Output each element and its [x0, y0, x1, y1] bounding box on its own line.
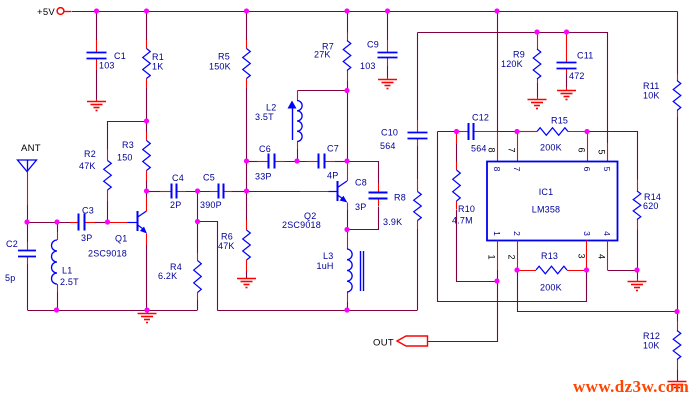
svg-text:LM358: LM358 [532, 205, 561, 215]
svg-text:472: 472 [569, 71, 585, 81]
junction pin4/R14 ground node [634, 267, 639, 272]
svg-text:C3: C3 [82, 206, 94, 216]
label R1 [152, 52, 164, 72]
svg-text:R5: R5 [218, 52, 230, 62]
svg-text:8: 8 [487, 147, 497, 152]
resistor R6 [243, 230, 251, 260]
label C10 [380, 128, 398, 152]
svg-text:ANT: ANT [21, 143, 41, 154]
svg-text:4: 4 [597, 254, 607, 259]
svg-text:C5: C5 [203, 173, 215, 183]
op-amp U IC1 [487, 162, 618, 241]
svg-text:200K: 200K [540, 283, 562, 293]
svg-text:R11: R11 [643, 81, 659, 91]
label C2 [5, 239, 18, 283]
pin number 2 [507, 254, 517, 259]
arrow L2 tuning [288, 101, 297, 141]
label R4 [158, 262, 182, 281]
label R2 [79, 149, 96, 171]
wire +5V top rail [72, 11, 678, 13]
svg-text:5: 5 [597, 149, 607, 154]
wire pin4 [608, 241, 638, 271]
label R12 [643, 331, 660, 351]
svg-text:OUT: OUT [373, 338, 394, 349]
svg-text:3: 3 [577, 253, 587, 258]
svg-text:2SC9018: 2SC9018 [282, 220, 321, 230]
junction +5V/R1 [144, 8, 149, 13]
svg-text:R15: R15 [551, 116, 568, 126]
pin name 3 [582, 231, 592, 236]
label C4 [170, 173, 184, 210]
wire C8 branch [348, 162, 379, 230]
wire pin6 stub [587, 132, 589, 162]
svg-text:7: 7 [512, 167, 522, 172]
wire R15 leads [517, 131, 587, 133]
junction L1 top [54, 219, 59, 224]
wire C1 branch [96, 11, 98, 101]
wire C10 R8 column [417, 33, 419, 311]
svg-text:R3: R3 [122, 140, 134, 150]
capacitor C1 [87, 53, 107, 59]
svg-text:103: 103 [360, 61, 376, 71]
svg-text:4: 4 [602, 231, 612, 236]
pin number 1 [487, 254, 497, 259]
svg-text:103: 103 [99, 61, 115, 71]
junction R5/C6 node [244, 158, 249, 163]
wire C2 leads [27, 222, 29, 310]
svg-text:10K: 10K [643, 91, 660, 101]
svg-text:C10: C10 [381, 128, 398, 138]
svg-text:L1: L1 [62, 266, 72, 276]
svg-text:2.5T: 2.5T [60, 277, 79, 287]
power port +5V [37, 7, 71, 18]
svg-text:5: 5 [602, 167, 612, 172]
pin number 5 [597, 149, 607, 154]
svg-text:C9: C9 [367, 40, 379, 50]
label C7 [327, 144, 339, 181]
svg-text:R1: R1 [152, 52, 164, 62]
junction L3 bottom [344, 307, 349, 312]
svg-text:L3: L3 [323, 251, 333, 261]
label R14 [643, 192, 661, 211]
wire pin8 column [497, 11, 499, 162]
pin name 2 [512, 231, 522, 236]
svg-text:4P: 4P [327, 171, 338, 181]
junction C11 top [564, 29, 569, 34]
wire Q2 base [247, 191, 338, 193]
wire L1 leads [57, 222, 59, 310]
wire bottom rail right [218, 310, 418, 312]
ground rail gnd symbol [138, 310, 157, 323]
svg-text:150K: 150K [209, 62, 231, 72]
svg-text:R8: R8 [394, 193, 406, 203]
pin number 3 [577, 253, 587, 258]
capacitor C6 [269, 154, 275, 169]
svg-text:IC1: IC1 [539, 187, 554, 197]
svg-text:10K: 10K [643, 341, 660, 351]
svg-text:R10: R10 [458, 204, 475, 214]
watermark www.dz3w.com [573, 377, 689, 395]
resistor R1 [143, 49, 151, 79]
capacitor C9 [378, 53, 398, 58]
wire R12 leads [677, 312, 679, 382]
wire ground rail left [28, 310, 198, 312]
svg-text:Q1: Q1 [115, 234, 127, 244]
label C9 [360, 40, 379, 72]
ground C9 [378, 80, 397, 89]
svg-text:6: 6 [582, 167, 592, 172]
resistor R5 [243, 49, 251, 79]
junction pin2/R13 node [514, 267, 519, 272]
capacitor C4 [172, 184, 177, 199]
junction C4/C5 node [195, 188, 200, 193]
junction pin6/R15/R14 node [584, 129, 589, 134]
ground R6 [237, 279, 256, 288]
svg-text:1uH: 1uH [317, 261, 334, 271]
svg-text:C1: C1 [114, 51, 126, 61]
wire R13 leads [517, 270, 587, 272]
svg-text:L2: L2 [266, 103, 276, 113]
junction R1/R2/R3 node [144, 118, 149, 123]
resistor R2 [104, 161, 112, 191]
inductor L2 [297, 101, 302, 142]
label R11 [643, 81, 660, 101]
ground pin4 [628, 270, 647, 291]
svg-text:47K: 47K [218, 241, 235, 251]
svg-text:1K: 1K [152, 62, 163, 72]
svg-text:C7: C7 [327, 144, 339, 154]
wire R2 stub [108, 122, 147, 221]
resistor R8 [414, 192, 422, 221]
wire R3 leads [146, 121, 148, 191]
pin number 4 [597, 254, 607, 259]
wire C12 row [438, 131, 518, 133]
wire C11 leads [566, 32, 568, 90]
transistor Q2 [338, 161, 348, 230]
capacitor C12 [469, 123, 474, 140]
junction +5V/C9 [385, 8, 390, 13]
svg-text:564: 564 [380, 141, 396, 151]
wire R15 to R14 [588, 132, 638, 271]
label Q1 [88, 234, 127, 259]
capacitor C7 [319, 154, 325, 169]
svg-text:5p: 5p [5, 273, 15, 283]
svg-text:200K: 200K [540, 143, 562, 153]
label R7 [314, 42, 334, 60]
wire emitter rail jog [198, 222, 218, 311]
svg-text:2P: 2P [170, 200, 181, 210]
svg-text:+5V: +5V [37, 7, 55, 18]
wire pin3 feedback [438, 132, 587, 302]
svg-text:C6: C6 [259, 144, 271, 154]
label R9 [501, 50, 525, 70]
ground C11 [557, 91, 576, 100]
junction L1 bottom [54, 307, 59, 312]
junction pin1/R10/OUT node [494, 278, 499, 283]
pin number 7 [507, 147, 517, 152]
svg-text:620: 620 [643, 201, 659, 211]
antenna ANT [18, 143, 41, 220]
junction +5V/R5 [244, 8, 249, 13]
capacitor C3 [79, 214, 85, 231]
junction R11/R12 node [674, 309, 679, 314]
junction ANT/C2 node [24, 219, 29, 224]
wire feedback top [418, 33, 608, 162]
label L1 [60, 266, 79, 288]
pin name 7 [512, 167, 522, 172]
wire R5 leads [246, 11, 248, 191]
label R13 [540, 251, 562, 293]
junction Q1 emitter ground [144, 307, 149, 312]
ground R9 [528, 100, 547, 109]
svg-text:C8: C8 [355, 178, 367, 188]
wire pin1 [497, 241, 499, 282]
resistor R10 [453, 170, 461, 201]
label C11 [569, 51, 593, 82]
svg-text:47K: 47K [79, 161, 96, 171]
wire R10 leads [457, 132, 498, 282]
capacitor C2 [18, 251, 36, 257]
label R15 [540, 116, 568, 153]
junction R9 top [534, 29, 539, 34]
wire L3 leads [347, 230, 349, 311]
label IC1 [532, 187, 561, 215]
pin number 8 [487, 147, 497, 152]
svg-text:3: 3 [582, 231, 592, 236]
svg-text:3.5T: 3.5T [255, 112, 274, 122]
wire C4 row [147, 191, 247, 193]
pin name 4 [602, 231, 612, 236]
svg-text:3P: 3P [81, 233, 92, 243]
svg-text:3.9K: 3.9K [383, 217, 402, 227]
ground C1 [87, 102, 106, 111]
label L2 [255, 103, 276, 123]
inductor L3 [347, 249, 364, 292]
svg-text:R13: R13 [541, 251, 558, 261]
svg-text:8: 8 [492, 167, 502, 172]
inductor L1 [52, 240, 57, 284]
label R6 [218, 232, 235, 252]
label R3 [117, 140, 134, 163]
wire OUT net [428, 282, 498, 342]
svg-text:C12: C12 [472, 113, 489, 123]
wire R11 column [677, 12, 679, 312]
junction R4 top node [195, 219, 200, 224]
label C6 [255, 144, 272, 182]
junction C12/R10 node [454, 129, 459, 134]
capacitor C8 [369, 193, 388, 199]
wire R4 branch [197, 192, 199, 311]
svg-text:3P: 3P [355, 202, 366, 212]
svg-text:4.7M: 4.7M [452, 216, 473, 226]
wire R1 leads [146, 11, 148, 121]
junction Q2 emitter/C8/L3 node [344, 227, 349, 232]
wire R7 leads [347, 11, 349, 161]
wire input row [28, 222, 79, 224]
wire C6 row [247, 161, 348, 163]
svg-text:7: 7 [507, 147, 517, 152]
resistor R13 [536, 266, 567, 274]
junction pin7/R15/C12 node [514, 129, 519, 134]
wire pin7 stub [517, 132, 519, 162]
resistor R4 [194, 261, 202, 293]
junction C6/L2/C7 tank node [294, 158, 299, 163]
label R10 [452, 204, 475, 226]
label C3 [81, 206, 94, 244]
junction C5/R6/Q2 base node [244, 188, 249, 193]
pin name 5 [602, 167, 612, 172]
svg-text:120K: 120K [501, 59, 523, 69]
capacitor C5 [219, 184, 224, 199]
transistor Q1 [137, 191, 147, 310]
label R5 [209, 52, 231, 72]
svg-text:6.2K: 6.2K [158, 271, 177, 281]
resistor R9 [533, 49, 541, 79]
resistor R14 [633, 191, 641, 220]
svg-text:C2: C2 [6, 239, 18, 249]
pin name 6 [582, 167, 592, 172]
junction R2/C3/Q1 base node [105, 219, 110, 224]
svg-text:R2: R2 [84, 149, 96, 159]
label C1 [99, 51, 126, 71]
svg-text:R6: R6 [221, 232, 233, 242]
svg-text:6: 6 [577, 147, 587, 152]
svg-text:1: 1 [487, 254, 497, 259]
svg-text:R9: R9 [513, 50, 525, 60]
junction R3/C4/Q1 collector node [144, 188, 149, 193]
wire C9 leads [387, 11, 389, 80]
svg-text:2: 2 [512, 231, 522, 236]
capacitor C11 [557, 63, 577, 69]
label Q2 [282, 211, 321, 230]
resistor R12 [673, 331, 681, 360]
ground R12 [668, 382, 687, 391]
svg-text:2SC9018: 2SC9018 [88, 249, 127, 259]
svg-text:27K: 27K [314, 50, 331, 60]
svg-text:33P: 33P [255, 172, 272, 182]
label R8 [383, 193, 406, 228]
label L3 [317, 251, 334, 271]
label C8 [355, 178, 367, 213]
wire C3 to Q1 base [84, 222, 137, 224]
junction R7/L2 node [344, 88, 349, 93]
junction +5V/C1 [94, 8, 99, 13]
wire L2 top [298, 91, 348, 101]
pin name 8 [492, 167, 502, 172]
pin number 6 [577, 147, 587, 152]
label C12 [471, 113, 489, 154]
resistor R3 [143, 141, 151, 171]
wire pin3 [586, 241, 588, 271]
wire R6 leads [246, 191, 248, 279]
wire pin2 to R12 [518, 271, 678, 312]
svg-text:R12: R12 [643, 331, 660, 341]
svg-text:www.dz3w.com: www.dz3w.com [573, 377, 689, 395]
junction +5V/R7 [344, 8, 349, 13]
resistor R11 [673, 81, 681, 111]
label C5 [200, 173, 222, 211]
wire L2 bottom [297, 142, 299, 162]
junction +5V/pin8 [494, 8, 499, 13]
resistor R7 [343, 41, 351, 71]
svg-text:C11: C11 [577, 51, 593, 61]
svg-text:390P: 390P [200, 200, 222, 210]
capacitor C10 [408, 133, 428, 139]
svg-text:564: 564 [471, 144, 487, 154]
junction pin3/R13 node [584, 267, 589, 272]
svg-text:1: 1 [492, 231, 502, 236]
wire R9 leads [537, 32, 539, 100]
svg-text:2: 2 [507, 254, 517, 259]
junction C7/Q2 collector node [344, 158, 349, 163]
svg-text:150: 150 [117, 153, 133, 163]
pin name 1 [492, 231, 502, 236]
port OUT [373, 336, 428, 349]
resistor R15 [537, 128, 568, 136]
svg-text:C4: C4 [172, 173, 184, 183]
wire pin2 [517, 241, 519, 271]
